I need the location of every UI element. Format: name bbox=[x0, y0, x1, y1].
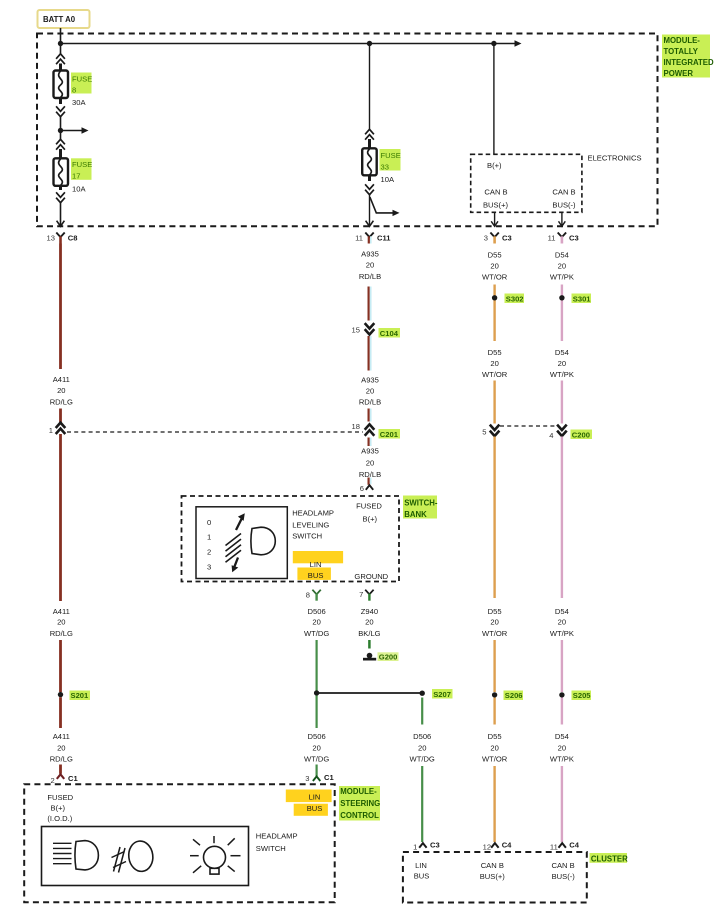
svg-text:S206: S206 bbox=[505, 691, 523, 700]
svg-text:C1: C1 bbox=[324, 773, 334, 782]
svg-text:FUSED: FUSED bbox=[356, 502, 382, 511]
svg-text:WT/PK: WT/PK bbox=[550, 273, 574, 282]
svg-text:20: 20 bbox=[418, 743, 426, 752]
svg-text:FUSE: FUSE bbox=[381, 151, 401, 160]
svg-text:11: 11 bbox=[355, 233, 363, 242]
svg-text:1: 1 bbox=[413, 842, 417, 851]
svg-text:POWER: POWER bbox=[664, 69, 694, 78]
svg-text:GROUND: GROUND bbox=[354, 572, 388, 581]
svg-text:20: 20 bbox=[558, 618, 566, 627]
svg-text:FUSE: FUSE bbox=[72, 75, 92, 84]
svg-text:CAN B: CAN B bbox=[551, 861, 574, 870]
svg-text:WT/DG: WT/DG bbox=[304, 754, 329, 763]
svg-text:3: 3 bbox=[305, 774, 309, 783]
svg-text:C104: C104 bbox=[380, 329, 399, 338]
svg-text:2: 2 bbox=[50, 776, 54, 785]
svg-text:20: 20 bbox=[490, 618, 498, 627]
svg-text:12: 12 bbox=[483, 842, 491, 851]
svg-text:A411: A411 bbox=[53, 375, 70, 384]
svg-text:LIN: LIN bbox=[309, 792, 321, 801]
svg-text:CLUSTER: CLUSTER bbox=[591, 854, 628, 863]
svg-text:11: 11 bbox=[550, 842, 558, 851]
svg-text:WT/PK: WT/PK bbox=[550, 754, 574, 763]
svg-text:33: 33 bbox=[381, 163, 389, 172]
svg-text:20: 20 bbox=[312, 618, 320, 627]
svg-text:S205: S205 bbox=[573, 691, 592, 700]
svg-text:10A: 10A bbox=[72, 184, 86, 193]
svg-text:D55: D55 bbox=[488, 348, 502, 357]
svg-text:D54: D54 bbox=[555, 732, 569, 741]
svg-text:D55: D55 bbox=[488, 251, 502, 260]
svg-text:D54: D54 bbox=[555, 348, 569, 357]
svg-text:S301: S301 bbox=[573, 294, 592, 303]
svg-text:WT/PK: WT/PK bbox=[550, 370, 574, 379]
svg-text:B(+): B(+) bbox=[363, 515, 378, 524]
svg-text:D54: D54 bbox=[555, 251, 569, 260]
svg-text:BUS(-): BUS(-) bbox=[552, 201, 576, 210]
svg-text:LIN: LIN bbox=[310, 560, 322, 569]
svg-text:ELECTRONICS: ELECTRONICS bbox=[588, 154, 642, 163]
svg-text:C1: C1 bbox=[68, 774, 78, 783]
svg-text:30A: 30A bbox=[72, 98, 86, 107]
svg-text:C200: C200 bbox=[572, 430, 590, 439]
svg-text:3: 3 bbox=[207, 563, 211, 572]
svg-text:17: 17 bbox=[72, 172, 80, 181]
svg-text:RD/LB: RD/LB bbox=[359, 272, 381, 281]
svg-text:18: 18 bbox=[352, 422, 360, 431]
svg-text:D54: D54 bbox=[555, 607, 569, 616]
svg-text:B(+): B(+) bbox=[487, 161, 502, 170]
svg-text:(I.O.D.): (I.O.D.) bbox=[47, 814, 72, 823]
svg-text:0: 0 bbox=[207, 518, 211, 527]
svg-text:FUSE: FUSE bbox=[72, 160, 92, 169]
svg-text:B(+): B(+) bbox=[51, 803, 66, 812]
svg-text:11: 11 bbox=[548, 233, 556, 242]
svg-text:1: 1 bbox=[207, 533, 211, 542]
svg-text:CAN B: CAN B bbox=[484, 188, 507, 197]
svg-text:D55: D55 bbox=[488, 732, 502, 741]
svg-text:HEADLAMP: HEADLAMP bbox=[256, 832, 298, 841]
svg-text:WT/OR: WT/OR bbox=[482, 273, 508, 282]
svg-text:BUS(-): BUS(-) bbox=[552, 872, 576, 881]
svg-text:INTEGRATED: INTEGRATED bbox=[664, 58, 714, 67]
svg-text:3: 3 bbox=[484, 233, 488, 242]
svg-text:10A: 10A bbox=[381, 175, 395, 184]
svg-text:CAN B: CAN B bbox=[552, 188, 575, 197]
svg-text:7: 7 bbox=[359, 590, 363, 599]
svg-text:20: 20 bbox=[312, 743, 320, 752]
svg-text:C3: C3 bbox=[502, 234, 512, 243]
svg-text:20: 20 bbox=[558, 261, 566, 270]
svg-text:C8: C8 bbox=[68, 234, 78, 243]
svg-text:8: 8 bbox=[72, 86, 76, 95]
svg-text:Z940: Z940 bbox=[361, 607, 378, 616]
svg-text:CAN B: CAN B bbox=[481, 861, 504, 870]
svg-text:SWITCH: SWITCH bbox=[292, 532, 322, 541]
svg-text:20: 20 bbox=[57, 618, 65, 627]
svg-text:5: 5 bbox=[482, 428, 486, 437]
svg-text:BANK: BANK bbox=[404, 510, 427, 519]
svg-text:C4: C4 bbox=[502, 841, 512, 850]
svg-text:LEVELING: LEVELING bbox=[292, 520, 329, 529]
svg-text:S201: S201 bbox=[71, 691, 90, 700]
svg-text:1: 1 bbox=[49, 426, 53, 435]
svg-text:BUS: BUS bbox=[414, 871, 430, 880]
svg-text:WT/OR: WT/OR bbox=[482, 629, 508, 638]
svg-text:20: 20 bbox=[366, 261, 374, 270]
svg-text:FUSED: FUSED bbox=[47, 793, 73, 802]
svg-text:WT/PK: WT/PK bbox=[550, 629, 574, 638]
svg-text:G200: G200 bbox=[379, 653, 398, 662]
svg-text:CONTROL: CONTROL bbox=[340, 811, 379, 820]
svg-text:HEADLAMP: HEADLAMP bbox=[292, 509, 334, 518]
svg-text:S302: S302 bbox=[506, 294, 524, 303]
svg-text:20: 20 bbox=[490, 359, 498, 368]
svg-text:RD/LG: RD/LG bbox=[50, 629, 73, 638]
svg-text:15: 15 bbox=[352, 325, 360, 334]
svg-text:SWITCH: SWITCH bbox=[256, 844, 286, 853]
svg-text:C3: C3 bbox=[430, 841, 440, 850]
svg-text:C201: C201 bbox=[380, 430, 399, 439]
svg-text:20: 20 bbox=[490, 261, 498, 270]
svg-text:20: 20 bbox=[57, 386, 65, 395]
svg-text:BATT A0: BATT A0 bbox=[43, 15, 76, 24]
svg-text:20: 20 bbox=[57, 743, 65, 752]
svg-text:MODULE-: MODULE- bbox=[664, 36, 701, 45]
svg-text:BUS: BUS bbox=[308, 571, 324, 580]
svg-text:MODULE-: MODULE- bbox=[340, 787, 377, 796]
svg-text:LIN: LIN bbox=[415, 861, 427, 870]
svg-text:4: 4 bbox=[549, 431, 553, 440]
svg-text:A935: A935 bbox=[361, 375, 379, 384]
svg-text:6: 6 bbox=[360, 484, 364, 493]
svg-text:D506: D506 bbox=[308, 732, 326, 741]
svg-text:20: 20 bbox=[558, 359, 566, 368]
svg-text:BUS(+): BUS(+) bbox=[480, 872, 506, 881]
svg-text:C3: C3 bbox=[569, 234, 579, 243]
svg-text:20: 20 bbox=[365, 618, 373, 627]
svg-text:WT/DG: WT/DG bbox=[410, 754, 435, 763]
svg-text:20: 20 bbox=[366, 386, 374, 395]
svg-text:2: 2 bbox=[207, 548, 211, 557]
svg-text:13: 13 bbox=[47, 233, 55, 242]
svg-text:C4: C4 bbox=[569, 841, 579, 850]
svg-text:20: 20 bbox=[366, 458, 374, 467]
svg-text:C11: C11 bbox=[377, 234, 391, 243]
svg-text:BUS(+): BUS(+) bbox=[483, 201, 509, 210]
svg-text:D55: D55 bbox=[488, 607, 502, 616]
svg-text:20: 20 bbox=[558, 743, 566, 752]
svg-text:8: 8 bbox=[306, 590, 310, 599]
svg-text:D506: D506 bbox=[308, 607, 326, 616]
svg-text:SWITCH-: SWITCH- bbox=[404, 499, 438, 508]
svg-text:WT/DG: WT/DG bbox=[304, 629, 329, 638]
svg-text:20: 20 bbox=[490, 743, 498, 752]
svg-text:BK/LG: BK/LG bbox=[358, 629, 380, 638]
svg-text:RD/LB: RD/LB bbox=[359, 398, 381, 407]
svg-text:S207: S207 bbox=[433, 690, 451, 699]
svg-text:A935: A935 bbox=[361, 249, 379, 258]
svg-text:D506: D506 bbox=[413, 732, 431, 741]
svg-text:WT/OR: WT/OR bbox=[482, 370, 508, 379]
svg-text:RD/LG: RD/LG bbox=[50, 397, 73, 406]
svg-text:A411: A411 bbox=[53, 732, 70, 741]
svg-text:BUS: BUS bbox=[307, 804, 323, 813]
svg-text:A411: A411 bbox=[53, 607, 70, 616]
svg-text:WT/OR: WT/OR bbox=[482, 754, 508, 763]
svg-text:STEERING: STEERING bbox=[340, 799, 380, 808]
svg-text:A935: A935 bbox=[361, 446, 379, 455]
svg-text:RD/LG: RD/LG bbox=[50, 754, 73, 763]
svg-text:TOTALLY: TOTALLY bbox=[664, 47, 699, 56]
